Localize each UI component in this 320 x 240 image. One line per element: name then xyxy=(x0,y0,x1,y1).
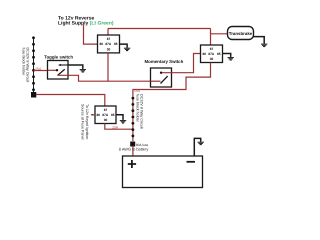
svg-text:87A: 87A xyxy=(208,52,215,56)
middle fuse block terminal dots xyxy=(132,97,135,138)
svg-text:87: 87 xyxy=(104,108,108,112)
svg-text:85: 85 xyxy=(111,113,115,117)
svg-text:fuse block holder: fuse block holder xyxy=(136,94,140,123)
svg-text:Toggle switch: Toggle switch xyxy=(44,55,73,60)
middle fuse block bus line xyxy=(132,97,134,141)
wire W1 reverse-light feed into relay U1 pin86 xyxy=(84,25,98,45)
plus terminal xyxy=(128,160,136,168)
svg-text:15A: 15A xyxy=(35,67,42,71)
wire relay U1 pin87 up to top bus xyxy=(107,29,109,36)
Transbrake box xyxy=(228,27,254,40)
actuator arrow line xyxy=(59,64,68,66)
battery xyxy=(123,156,203,188)
wire branch to Transbrake xyxy=(211,33,228,35)
relay U3 xyxy=(95,106,116,124)
contact dot xyxy=(56,69,58,71)
wire left fuse stud to relay U3 pin87 xyxy=(36,95,105,107)
left fuse block bus line xyxy=(33,37,35,93)
relay U1 xyxy=(98,35,120,53)
keyed ignition feed arrow into relay U3 pin86 xyxy=(91,114,95,116)
ground at relay U2 pin85 xyxy=(223,54,234,61)
svg-text:86: 86 xyxy=(97,113,101,117)
svg-text:30: 30 xyxy=(107,47,111,51)
svg-text:To 12v Keyed Ignition: To 12v Keyed Ignition xyxy=(85,104,89,139)
ground at Transbrake xyxy=(254,37,268,47)
svg-text:86: 86 xyxy=(100,42,104,46)
svg-text:87A: 87A xyxy=(105,42,112,46)
svg-text:30: 30 xyxy=(104,118,108,122)
wire top bus xyxy=(108,28,211,30)
svg-text:86: 86 xyxy=(203,52,207,56)
toggle switch S1 xyxy=(48,61,69,80)
svg-text:87: 87 xyxy=(107,37,111,41)
svg-text:8 AWG to battery: 8 AWG to battery xyxy=(119,146,149,151)
svg-text:87A: 87A xyxy=(102,113,109,117)
wire 80A fuse to battery positive xyxy=(132,146,134,156)
wire 15A fused feed to toggle switch xyxy=(34,70,49,72)
ground at relay U3 pin85 xyxy=(116,115,126,123)
svg-text:87: 87 xyxy=(210,47,214,51)
wire down to relay U2 pin87 xyxy=(210,29,212,46)
svg-text:Momentary Switch: Momentary Switch xyxy=(145,59,184,64)
svg-text:15A: 15A xyxy=(112,125,119,129)
wire momentary switch to relay U2 pin86 xyxy=(162,54,201,73)
blade xyxy=(58,69,65,75)
wire relay U1 pin30 down to switch bus xyxy=(107,53,109,81)
svg-text:85: 85 xyxy=(217,52,221,56)
wire toggle switch to momentary switch xyxy=(58,75,151,81)
svg-text:85: 85 xyxy=(114,42,118,46)
80A fuse stud (square) xyxy=(130,142,135,147)
svg-text:Light Supply (Lt Green): Light Supply (Lt Green) xyxy=(58,20,114,26)
momentary switch S2 xyxy=(151,68,172,87)
left fuse block stud (square) xyxy=(31,92,36,98)
wire relay U2 pin30 to middle fuse block xyxy=(133,63,211,98)
ground at relay U1 pin85 xyxy=(120,44,131,51)
svg-text:30: 30 xyxy=(210,57,214,61)
left fuse block terminal dots xyxy=(32,36,35,91)
svg-text:Source at Fuse Panel: Source at Fuse Panel xyxy=(80,104,84,140)
ground at toggle switch xyxy=(68,65,86,72)
svg-text:Transbrake: Transbrake xyxy=(229,31,253,36)
relay U2 xyxy=(201,45,223,63)
red stub into toggle dot xyxy=(48,69,57,71)
svg-text:fuse block holder: fuse block holder xyxy=(22,48,26,77)
wire battery negative to ground xyxy=(194,138,204,156)
svg-text:15A: 15A xyxy=(134,89,141,93)
wire relay U3 pin30 to middle fuse block xyxy=(105,124,133,130)
minus terminal xyxy=(187,161,196,163)
